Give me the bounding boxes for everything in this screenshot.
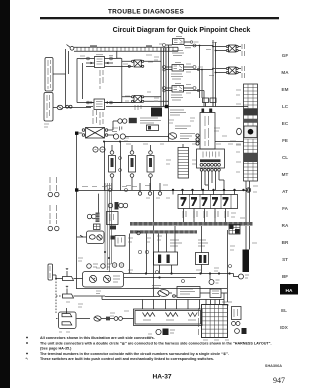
svg-text:CL: CL — [282, 155, 288, 160]
svg-text:947: 947 — [273, 376, 285, 385]
left rail 2 (unit box left edge) — [76, 133, 78, 289]
drop circles left of fan switch block — [138, 183, 161, 195]
long mid bus y106.5 — [86, 106, 248, 108]
labels bottom area — [128, 238, 151, 242]
right unit edge vertical — [227, 230, 229, 302]
svg-text:SHA306A: SHA306A — [265, 364, 282, 368]
double switch enclosure bottom-left — [56, 308, 90, 329]
upper loop rails — [77, 52, 122, 103]
svg-text:ST: ST — [282, 257, 288, 262]
long feed wire — [105, 141, 244, 143]
cooling fan relay-1 (top right, box with X) — [213, 44, 245, 56]
heater fuse component A — [86, 55, 133, 68]
svg-text:*:: *: — [26, 357, 29, 361]
fuse block box (left, vertical text) — [45, 58, 53, 92]
labels under switch modules — [106, 184, 168, 187]
fan relay no.1 — [166, 37, 193, 56]
circled pair right of table — [235, 328, 247, 334]
ground symbol + circled num bottom center — [156, 329, 175, 336]
svg-text:Circuit Diagram for Quick Pinp: Circuit Diagram for Quick Pinpoint Check — [113, 27, 251, 34]
relay A (box with X) — [122, 60, 161, 67]
svg-text:TROUBLE DIAGNOSES: TROUBLE DIAGNOSES — [108, 9, 185, 16]
fan main switch (left) — [48, 264, 83, 281]
labels under fan switch block — [183, 211, 228, 218]
fusible link chain bottom — [94, 316, 134, 321]
svg-text:RA: RA — [282, 223, 289, 228]
main harness tag (black) — [243, 250, 250, 273]
svg-text:AT: AT — [282, 189, 288, 194]
thermo control amp box — [172, 287, 200, 298]
svg-text:The unit side connectors with: The unit side connectors with a double c… — [40, 342, 272, 346]
blower resistor block — [134, 309, 203, 326]
air mix door circles row — [108, 202, 127, 210]
wire color labels top area — [80, 56, 85, 59]
fan switch block (5 cells) — [173, 190, 238, 209]
top connector strip — [67, 45, 179, 52]
rail branch — [68, 51, 70, 74]
unit connector table bottom right — [199, 305, 228, 338]
unit enclosure bottom edge — [77, 288, 228, 290]
circled pair below bus right — [209, 274, 220, 285]
circled pairs above blower enclosure — [87, 264, 111, 269]
table top pins — [206, 300, 224, 305]
wire color labels between loops (vertical text ticks) — [100, 70, 103, 89]
header rule — [40, 17, 279, 19]
labels near top-right relays — [206, 43, 218, 76]
svg-text:BR: BR — [282, 240, 289, 245]
cooling fan relay-2 (box with X) — [213, 66, 245, 78]
defroster door box lower — [111, 236, 126, 247]
svg-text:EC: EC — [282, 121, 289, 126]
main left rail — [65, 49, 67, 107]
power transistor box — [154, 226, 183, 274]
main harness connector column (stacked grids) — [244, 84, 258, 181]
intake door motor comps left — [87, 194, 100, 230]
circled number column left of unit — [196, 134, 199, 145]
labels near y141 bus — [126, 143, 233, 145]
svg-text:EL: EL — [281, 308, 287, 313]
drops from hatched bus to bottom area — [130, 226, 202, 274]
black dot connector on column — [244, 126, 257, 138]
illumination bundle (striped) — [178, 144, 189, 178]
switch 2 — [56, 286, 105, 298]
svg-text:FA: FA — [282, 206, 289, 211]
dashed rail bottom-left — [55, 279, 57, 314]
svg-text:MA: MA — [281, 70, 289, 75]
svg-text:FE: FE — [282, 138, 288, 143]
wire y296 — [105, 296, 160, 298]
svg-text:LC: LC — [282, 104, 289, 109]
push control unit switch module 3 — [147, 145, 154, 297]
svg-text:GF: GF — [282, 53, 289, 58]
oval beside column — [237, 128, 242, 134]
vent door motor enclosure — [77, 231, 105, 244]
svg-text:BF: BF — [282, 274, 288, 279]
hatched bus 1 (label band) — [130, 222, 253, 226]
resistor drops — [143, 300, 200, 310]
heater unit comp right of table — [232, 307, 242, 326]
junction square B2 — [75, 188, 78, 191]
svg-text:(See page HA-35.): (See page HA-35.) — [40, 347, 72, 351]
fan relay no.2 — [166, 63, 197, 80]
hatched bus 2 — [130, 230, 197, 233]
wire fuse block to rail — [53, 73, 66, 75]
junction dots on bus — [145, 272, 231, 278]
tab HA highlighted — [280, 284, 298, 295]
ambient sensor row — [120, 125, 192, 131]
bus junction nodes — [172, 189, 245, 191]
junction square B1 — [75, 132, 78, 135]
fan relay no.3 — [166, 84, 197, 101]
thermal protector oval — [152, 286, 172, 297]
wire bundle to lower unit — [104, 183, 112, 272]
labels near column left — [236, 90, 241, 172]
heater fuse component B — [86, 99, 134, 110]
circled connector bottom right — [234, 274, 250, 280]
relay B (box with X) — [122, 96, 169, 111]
push control unit pin header — [197, 149, 225, 190]
labels near y190 bus left — [82, 186, 137, 188]
power transistor 2 box — [196, 240, 209, 274]
svg-text:EM: EM — [282, 87, 289, 92]
aspirator unit small grid right of bus — [229, 225, 240, 235]
svg-text:These switches are built into: These switches are built into push contr… — [40, 357, 214, 361]
circled pair below relay — [93, 147, 105, 152]
main bus y190 — [78, 190, 247, 192]
vertical wire bundle center-top — [161, 48, 166, 107]
svg-text:The terminal numbers in the co: The terminal numbers in the connector co… — [40, 351, 229, 356]
svg-text:IDX: IDX — [280, 325, 289, 330]
svg-text:All connectors shown in this i: All connectors shown in this illustratio… — [40, 336, 155, 340]
mode door motor drops from y190 bus — [120, 142, 122, 191]
legend column (circle legend) — [48, 177, 59, 231]
push control unit upper body — [200, 109, 215, 150]
push control unit switch module 2 — [129, 145, 136, 190]
svg-text:MT: MT — [282, 172, 289, 177]
svg-text:HA: HA — [286, 288, 293, 294]
push control unit switch module 1 — [109, 145, 116, 190]
fusible link symbol — [53, 105, 91, 109]
small comp right of amp box — [200, 289, 227, 298]
cooling fan feed rails — [213, 40, 216, 107]
wire bus y277.5 — [124, 277, 196, 279]
resistor feed line — [102, 299, 224, 301]
controller (auto amp) black module — [151, 108, 186, 117]
ignition switch box (left, vertical text) — [44, 93, 53, 122]
wire top bus to cooling relay rails — [193, 46, 213, 91]
wire bus y273.5 — [124, 273, 234, 275]
small connector boxes right of bus — [203, 98, 209, 103]
in-vehicle sensor row — [113, 133, 195, 139]
defroster door box upper — [107, 212, 119, 230]
drops to hatched bus — [184, 209, 226, 223]
labels along controller row — [112, 128, 118, 131]
blower relay (box with X) — [78, 110, 117, 138]
a/c relay row — [118, 118, 161, 123]
blower motor enclosure — [83, 272, 124, 288]
column verticals to tag — [246, 181, 250, 250]
circled pair left of transistor — [112, 263, 124, 268]
left page gutter black bar — [0, 0, 10, 388]
svg-text:HA-37: HA-37 — [152, 374, 171, 381]
